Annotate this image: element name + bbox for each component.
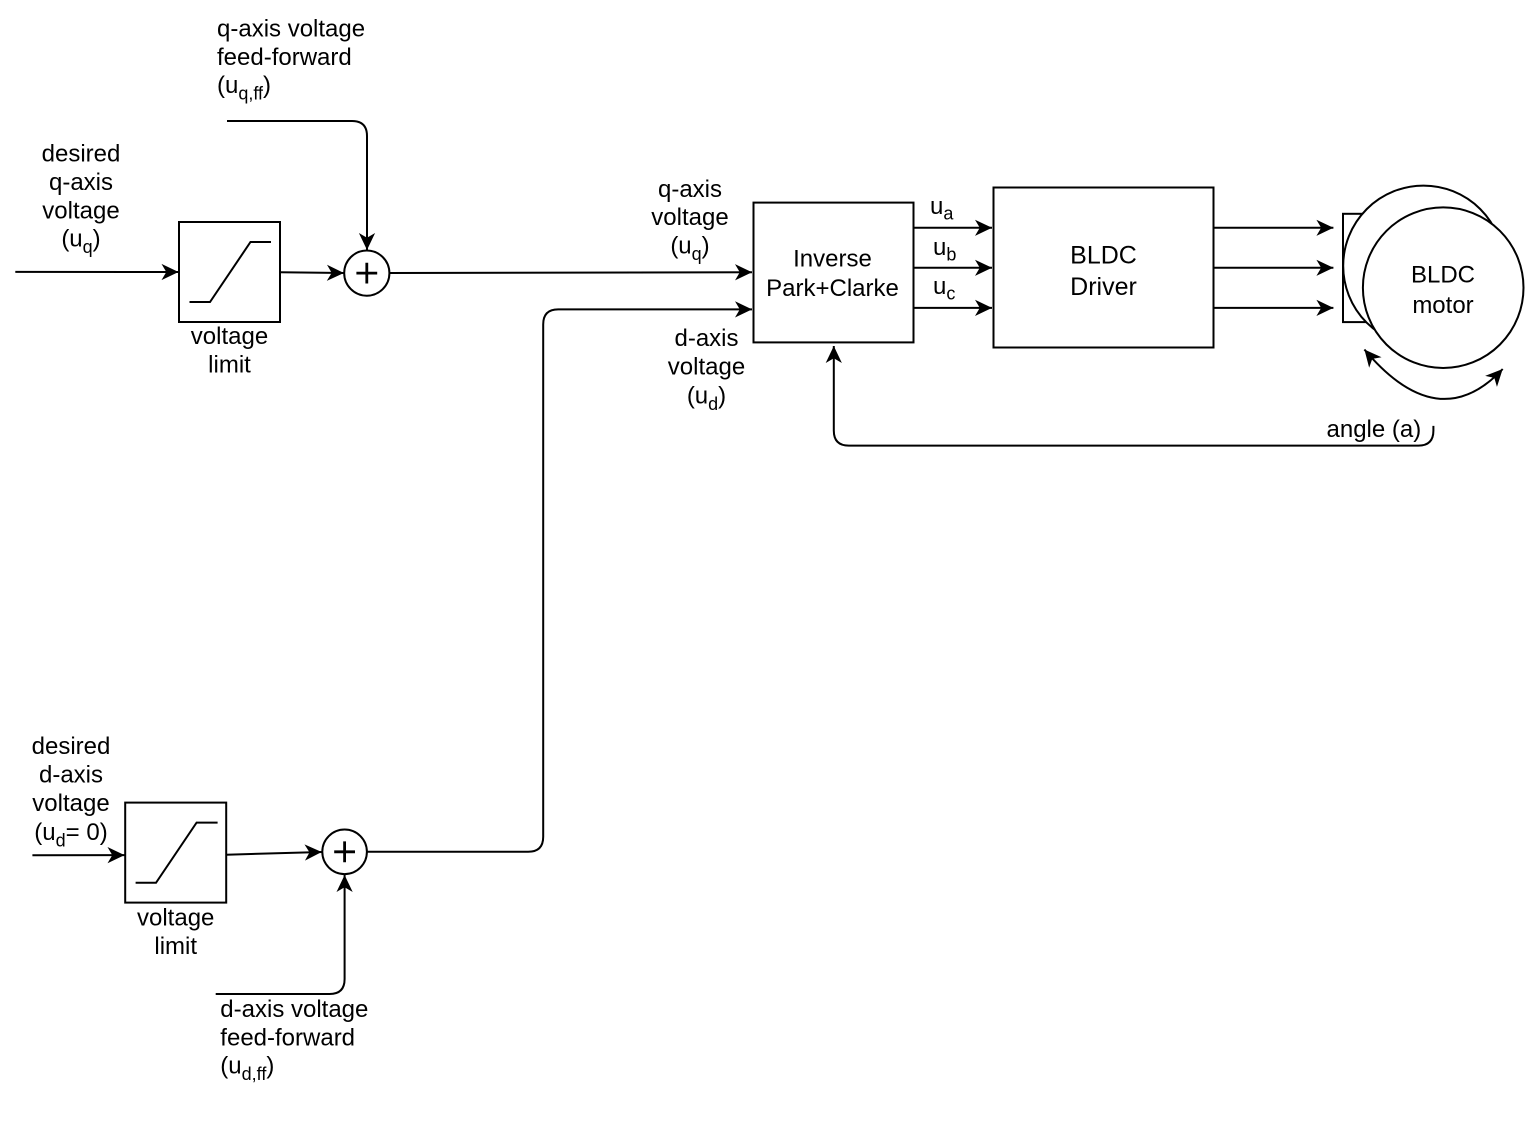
wire: q-axis feed-forward into sum junction 1 (227, 121, 367, 250)
svg-text:desired: desired (32, 733, 111, 760)
motor M1: stator terminal block (1343, 214, 1400, 322)
wire: u_a from Park to BLDC Driver (914, 227, 993, 229)
block: voltage limit 2 (125, 803, 226, 903)
motor rotation arrow (double-headed arc) (1364, 350, 1502, 399)
label: d-axis voltage feed-forward (u_d,ff) (220, 996, 368, 1084)
svg-text:q-axis: q-axis (49, 169, 113, 196)
svg-text:(uq): (uq) (61, 226, 100, 258)
wire: angle feedback from motor to Park+Clarke (834, 346, 1434, 446)
svg-text:voltage: voltage (137, 905, 214, 932)
wire: d-axis voltage from sum junction 2 up to Park d input (367, 309, 752, 851)
svg-text:d-axis: d-axis (39, 762, 103, 789)
svg-text:(uq): (uq) (670, 233, 709, 265)
label: q-axis voltage (u_q) at Park input (651, 176, 728, 264)
svg-text:voltage: voltage (191, 323, 268, 350)
motor M1: rear housing circle (1343, 186, 1504, 347)
svg-text:BLDC: BLDC (1070, 242, 1137, 270)
label: desired d-axis voltage (u_d = 0) (32, 733, 111, 851)
svg-text:voltage: voltage (42, 197, 119, 224)
svg-text:limit: limit (154, 933, 197, 960)
svg-text:BLDC: BLDC (1411, 261, 1475, 288)
svg-text:(ud): (ud) (687, 383, 726, 415)
wire: voltage limit 1 to sum junction 1 (280, 271, 344, 274)
svg-text:voltage: voltage (32, 790, 109, 817)
svg-text:motor: motor (1412, 292, 1473, 319)
wire: driver phase a to motor (1214, 227, 1334, 229)
svg-text:limit: limit (208, 351, 251, 378)
wire: voltage limit 2 to sum junction 2 (226, 852, 322, 855)
svg-text:feed-forward: feed-forward (220, 1024, 355, 1051)
svg-text:angle (a): angle (a) (1327, 416, 1422, 443)
svg-text:q-axis voltage: q-axis voltage (217, 15, 365, 42)
wire: driver phase c to motor (1214, 307, 1334, 309)
svg-text:q-axis: q-axis (658, 176, 722, 203)
svg-text:Park+Clarke: Park+Clarke (766, 275, 899, 302)
block: Inverse Park+Clarke U1 (754, 203, 914, 343)
label: desired q-axis voltage (u_q) (42, 141, 121, 258)
label: d-axis voltage (u_d) at Park input (668, 325, 745, 414)
sum junction 2 (322, 830, 367, 875)
svg-text:desired: desired (42, 141, 121, 168)
wire: desired q-axis voltage input into voltage limit 1 (15, 271, 178, 273)
svg-text:Driver: Driver (1070, 273, 1137, 301)
svg-text:Inverse: Inverse (793, 246, 872, 273)
wire: u_c from Park to BLDC Driver (914, 307, 993, 309)
svg-text:voltage: voltage (651, 204, 728, 231)
label: BLDC motor (1411, 261, 1475, 318)
sum junction 1 (344, 251, 389, 296)
wire: u_b from Park to BLDC Driver (914, 267, 993, 269)
wire: d-axis feed-forward into sum junction 2 (216, 875, 345, 994)
svg-text:d-axis: d-axis (674, 325, 738, 352)
block: voltage limit 1 (179, 222, 280, 322)
svg-text:voltage: voltage (668, 354, 745, 381)
label: voltage limit (lower) (137, 905, 214, 960)
svg-text:d-axis voltage: d-axis voltage (220, 996, 368, 1023)
label: voltage limit (upper) (191, 323, 268, 378)
svg-text:(ud= 0): (ud= 0) (34, 819, 107, 851)
wire: driver phase b to motor (1214, 267, 1334, 269)
block: BLDC Driver U2 (994, 188, 1214, 348)
label: q-axis voltage feed-forward (u_q,ff) (217, 15, 365, 103)
svg-text:feed-forward: feed-forward (217, 44, 352, 71)
wire: sum junction 1 to Inverse Park+Clarke (q-axis voltage) (390, 271, 752, 274)
wire: desired d-axis voltage input into voltage limit 2 (32, 854, 124, 856)
motor M1: front face circle (1363, 207, 1524, 368)
